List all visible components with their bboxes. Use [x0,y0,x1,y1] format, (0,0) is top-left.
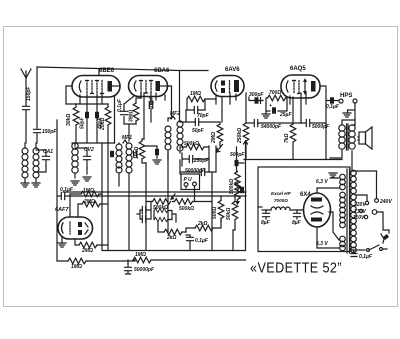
wire 6BE6 cathode left [66,86,76,104]
svg-text:MF2: MF2 [170,111,180,117]
tone resistor 2 [154,217,168,221]
svg-text:2MΩ: 2MΩ [81,248,93,254]
svg-text:500kΩ: 500kΩ [184,141,199,147]
wire osc bottom rail [72,142,115,144]
svg-text:25µF: 25µF [279,112,292,118]
svg-text:150pF: 150pF [26,86,32,101]
bus wires (AVC/grid returns) [63,191,246,193]
wire antenna to coil [25,112,27,143]
svg-text:P U: P U [184,177,193,183]
svg-text:8µF: 8µF [261,220,271,226]
resistor 2kO [164,229,182,235]
svg-text:7000Ω: 7000Ω [274,198,288,203]
svg-text:0,1µF: 0,1µF [359,254,373,260]
wire 6BA6 plate to MF2 [169,86,172,118]
capacitor 0,1uF (cathode) [187,237,194,240]
capacitor 250pF [189,156,192,163]
resistor 1MO [81,191,99,197]
oscillator coil CV2 [72,143,78,173]
tube 6BA6 [129,76,170,97]
capacitor 300pF (black) [255,97,259,103]
resistor 500O [218,201,224,219]
tube 6AQ5 [281,75,320,98]
resistor 1MO (bottom mid) [133,257,151,263]
240V tap [375,199,379,203]
vertical wire (phase line) [211,186,213,251]
svg-text:6BE6: 6BE6 [99,68,115,74]
svg-text:6BA6: 6BA6 [154,68,170,74]
svg-text:2MΩ: 2MΩ [211,132,217,144]
ground (6AF7 cathode) [58,243,66,247]
resistor 700O (cathode 6AQ5) [268,95,286,101]
svg-text:MF1: MF1 [122,135,132,141]
filter choke [271,207,290,210]
resistor 1MO (diode load) [187,96,205,102]
mains taps [356,195,367,201]
ground (ant secondary) [32,183,40,187]
ground (ant primary) [21,183,29,187]
capacitor (MF1 tuning) [134,151,137,157]
capacitor 0,1uF (AVC) [121,111,128,114]
pins 6BE6 [80,94,115,143]
resistor 500kO vertical [235,172,241,190]
wiper arrow [171,194,175,199]
svg-text:«VEDETTE 52”: «VEDETTE 52” [250,260,342,277]
svg-text:6,3 V: 6,3 V [316,241,328,247]
resistor 250kO [243,123,249,141]
ground (HPS) [343,113,351,117]
ground (osc coil) [71,181,79,185]
capacitor 50000pF (bottom) [125,263,132,271]
resistor 500kO (series) [175,199,193,205]
power supply box [258,167,350,252]
capacitor 8uF (right) [294,210,301,219]
svg-text:500Ω: 500Ω [212,207,218,219]
svg-text:2kΩ: 2kΩ [197,221,208,227]
svg-text:54000pF: 54000pF [261,124,282,130]
antenna coil primary [22,148,28,178]
capacitor CA1 trimmer [43,150,50,166]
svg-text:0,1µF: 0,1µF [326,104,340,110]
capacitor (osc padder) [84,148,91,168]
power transformer [340,174,346,251]
svg-text:30kΩ: 30kΩ [66,114,72,126]
svg-text:1MΩ: 1MΩ [190,91,201,97]
svg-text:1MΩ: 1MΩ [83,188,94,194]
svg-text:1MΩ: 1MΩ [135,252,146,258]
capacitor 500pF (black) [235,160,239,166]
resistor 50kO vertical [232,202,238,220]
svg-text:Excel HP: Excel HP [271,191,292,196]
svg-text:50000pF: 50000pF [134,267,155,273]
pins 6BA6 [141,93,165,139]
tone capacitor 2 [142,216,145,223]
svg-text:50pF: 50pF [80,116,86,129]
resistor 20kO [105,107,111,125]
svg-text:700Ω: 700Ω [269,90,281,96]
tone resistor 1 [154,208,168,212]
wire osc top rail [76,103,102,105]
capacitor 40pF (black) [95,112,99,118]
capacitor 54000pF [254,120,257,127]
speaker [359,132,366,144]
svg-text:70pF: 70pF [149,95,155,108]
svg-text:500kΩ: 500kΩ [179,206,194,212]
resistor 2kO (second) [195,225,213,231]
svg-text:150pF: 150pF [42,129,57,135]
svg-text:250kΩ: 250kΩ [237,128,243,144]
svg-text:6AQ5: 6AQ5 [290,66,306,72]
pins 6AV6 [216,93,246,122]
svg-text:300pF: 300pF [249,92,264,98]
ground (box) [329,173,337,177]
capacitor 150pF (padder) [34,129,41,132]
capacitor 25uF (black) [272,107,276,113]
svg-text:HPS: HPS [340,93,352,99]
svg-text:10kΩ: 10kΩ [134,147,140,159]
capacitor 8uF (left) [263,210,270,219]
svg-text:0,1µF: 0,1µF [195,238,209,244]
antenna coil secondary [33,148,39,178]
svg-text:6AV6: 6AV6 [225,67,240,73]
svg-text:240V: 240V [379,199,392,205]
svg-text:20kΩ: 20kΩ [100,118,106,131]
resistor 7kO [290,124,296,142]
svg-text:50000pF: 50000pF [185,168,206,174]
resistor 2MO (grid) [217,124,223,142]
svg-text:1MΩ: 1MΩ [71,264,82,270]
svg-text:8µF: 8µF [292,220,302,226]
resistor 500kO (AVC filter) [186,144,204,150]
capacitor 5000pF [306,120,309,127]
svg-text:220V: 220V [353,202,366,208]
capacitor 0,1uF (mains) [351,254,357,257]
ground (700) [262,114,270,118]
svg-text:6,3 V: 6,3 V [316,179,328,185]
svg-text:110V: 110V [353,215,365,221]
mains plug [381,234,387,243]
tube 6BE6 [72,76,120,98]
capacitor 50pF (osc, black) [85,112,89,118]
resistor 2MO (target) [79,242,97,248]
svg-text:+: + [269,103,272,109]
resistor 1MO (bottom) [68,258,86,264]
B+ rail [244,159,342,161]
resistor 2MO [82,201,100,207]
ground (MF1 cap) [153,160,161,164]
svg-text:390Ω: 390Ω [129,110,135,122]
resistor 390O (cathode) [133,103,139,121]
capacitor 150pF (antenna series) [23,104,30,112]
capacitor 50pF [195,119,198,126]
capacitor 50000pF (PU coupling) [201,169,204,176]
capacitor (cath, black) [240,187,244,193]
svg-text:2kΩ: 2kΩ [166,235,177,241]
svg-text:50kΩ: 50kΩ [226,208,232,220]
capacitor 0,1uF (6AF7 grid) [61,193,64,200]
antenna [21,69,31,104]
wire bus drop to MF2 [179,71,181,122]
wire 6X4 to transformer [329,212,339,240]
svg-text:500kΩ: 500kΩ [229,179,235,194]
ground (padder) [83,177,91,181]
capacitor 10pF (black) [155,149,159,155]
mains switch [351,249,365,251]
svg-text:2MΩ: 2MΩ [83,199,95,205]
svg-text:5000pF: 5000pF [312,124,330,130]
capacitor 70pF (det) [194,107,197,114]
volume pot 500kO [153,199,171,205]
capacitor (MF1 primary, black) [110,151,114,157]
svg-text:500pF: 500pF [230,152,245,158]
capacitor 70pF [149,102,152,109]
svg-text:70pF: 70pF [197,113,210,119]
svg-text:7kΩ: 7kΩ [284,133,290,143]
output transformer [339,125,345,149]
P.U. box [181,174,200,190]
svg-text:0,1µF: 0,1µF [60,187,74,193]
tone capacitor 1 [142,207,145,214]
capacitor 0,1uF (HPS) [330,97,334,103]
pins 6AQ5 [290,86,326,160]
long verticals [102,143,168,250]
svg-text:50pF: 50pF [192,128,205,134]
volume arrow [217,145,223,153]
tube 6AV6 [211,76,244,97]
resistor 30kO (osc grid) [73,107,79,125]
wire top bus [37,67,208,143]
svg-text:0,1µF: 0,1µF [117,98,123,112]
resistor 10kO [139,141,145,159]
